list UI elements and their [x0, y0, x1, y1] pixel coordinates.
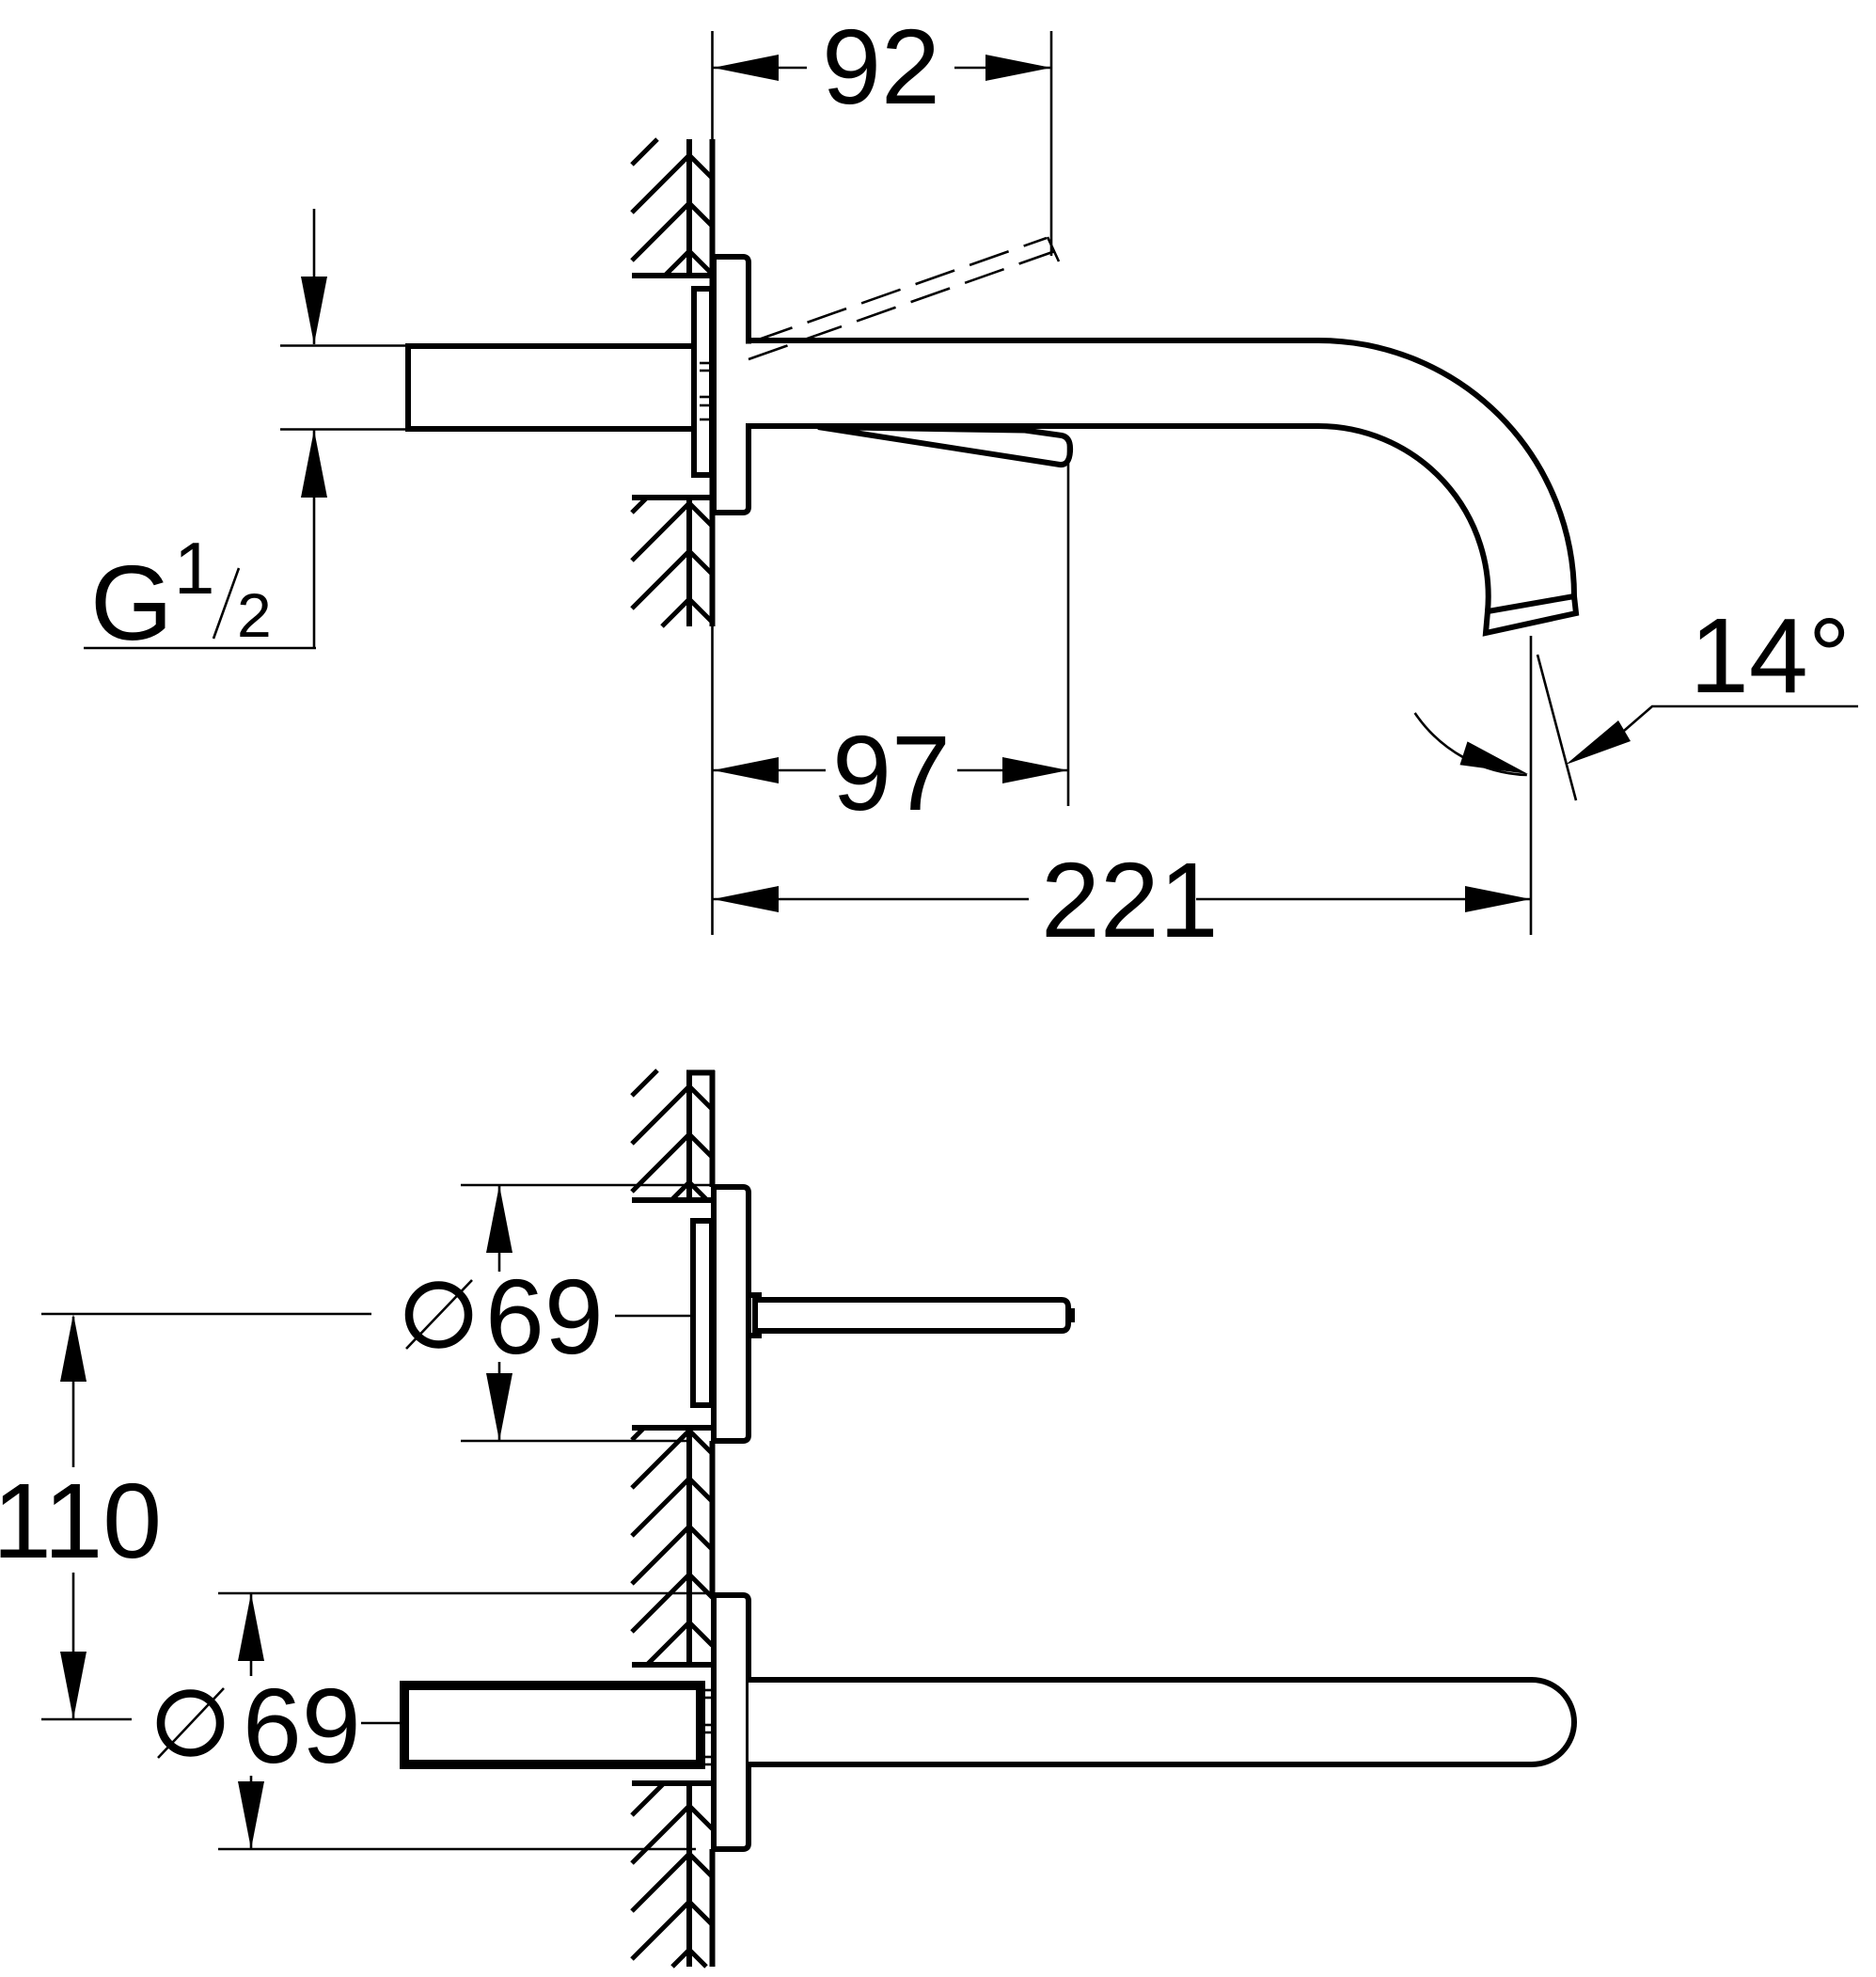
svg-text:2: 2: [237, 580, 272, 650]
svg-text:14°: 14°: [1690, 596, 1851, 715]
svg-text:69: 69: [243, 1667, 361, 1785]
svg-text:G: G: [90, 544, 173, 662]
svg-text:69: 69: [485, 1257, 604, 1376]
svg-text:92: 92: [822, 8, 940, 126]
svg-text:97: 97: [832, 714, 951, 832]
svg-text:1: 1: [174, 527, 214, 609]
svg-text:110: 110: [0, 1462, 162, 1580]
svg-text:221: 221: [1041, 841, 1219, 959]
